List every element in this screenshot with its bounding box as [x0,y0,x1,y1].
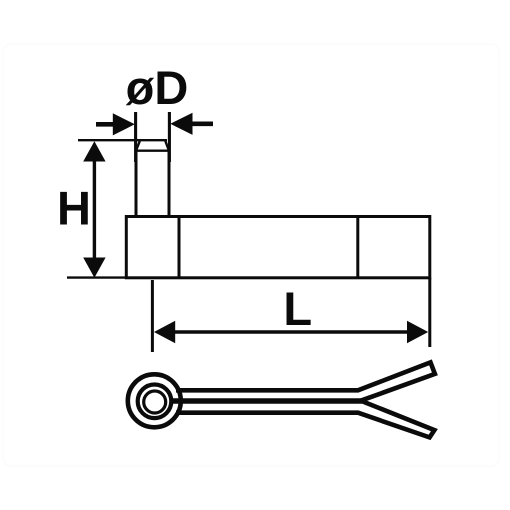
extension line øD right [168,112,171,162]
pin cylinder sides [136,150,169,216]
extension line øD left [134,112,137,162]
cotter pin eye middle circle [138,385,172,419]
pin chamfer [136,141,169,151]
extension line L left [151,280,154,352]
svg-text:H: H [57,182,91,235]
body outline [126,217,430,278]
arrowhead L right [407,321,428,343]
dimension arrow øD left [96,113,135,135]
arrowhead H down [83,258,105,278]
arrowhead L left [154,321,175,343]
body division line right [356,217,359,278]
extension line L right [428,278,431,347]
reference line bottom extension [67,276,126,278]
dimension arrow øD right [170,113,213,135]
reference line top (pin top) [78,139,167,141]
dimension line H [93,152,96,266]
cotter pin top edge and upper leg [176,362,435,400]
cotter pin ring outer [128,374,181,427]
body division line left [178,217,181,278]
cotter pin seam line [170,398,362,404]
dimension line L [165,330,418,333]
svg-text:L: L [283,282,312,335]
svg-text:øD: øD [126,61,189,114]
cotter pin eye inner circle [144,391,166,413]
arrowhead H up [83,141,105,161]
cotter pin bottom edge and lower leg [176,401,434,437]
